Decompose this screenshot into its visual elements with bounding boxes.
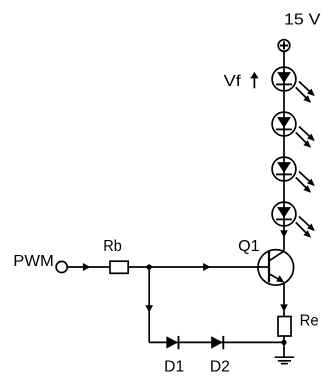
svg-text:Q1: Q1 — [238, 238, 260, 255]
svg-text:Vf: Vf — [224, 73, 242, 90]
terminal PWM — [56, 261, 67, 272]
supply terminal + — [278, 40, 290, 52]
diode D1 — [166, 336, 178, 349]
wire emitter to Re — [283, 282, 285, 316]
LED led2 — [272, 112, 315, 148]
wire Re to ground node — [283, 336, 285, 342]
node junction at Re bottom — [281, 340, 286, 345]
resistor Rb — [110, 261, 128, 273]
wire bottom run to ground node — [149, 341, 284, 343]
LED led1 — [272, 67, 315, 103]
LED led4 — [272, 202, 315, 238]
svg-text:D1: D1 — [164, 359, 184, 376]
svg-text:Re: Re — [300, 313, 319, 330]
svg-text:15 V: 15 V — [284, 12, 321, 29]
current arrow on input wire — [83, 263, 91, 271]
wire junction down to diodes — [148, 267, 150, 342]
current arrow on emitter wire — [280, 304, 288, 311]
current arrow on base wire — [203, 263, 211, 271]
resistor Re — [278, 317, 291, 337]
svg-text:Rb: Rb — [103, 238, 122, 255]
current arrow on left vertical wire — [145, 305, 153, 312]
wire supply through LED chain to collector — [283, 52, 285, 251]
svg-text:PWM: PWM — [13, 253, 54, 270]
node junction after Rb — [147, 264, 152, 269]
annotation Vf — [224, 72, 259, 90]
wire Rb to base — [128, 266, 269, 268]
diode D2 — [211, 336, 223, 349]
LED led3 — [272, 157, 315, 193]
wire PWM to Rb — [68, 266, 111, 268]
current arrow on collector wire — [280, 230, 288, 237]
svg-text:D2: D2 — [210, 359, 230, 376]
ground — [275, 342, 295, 363]
transistor Q1 — [258, 250, 294, 286]
